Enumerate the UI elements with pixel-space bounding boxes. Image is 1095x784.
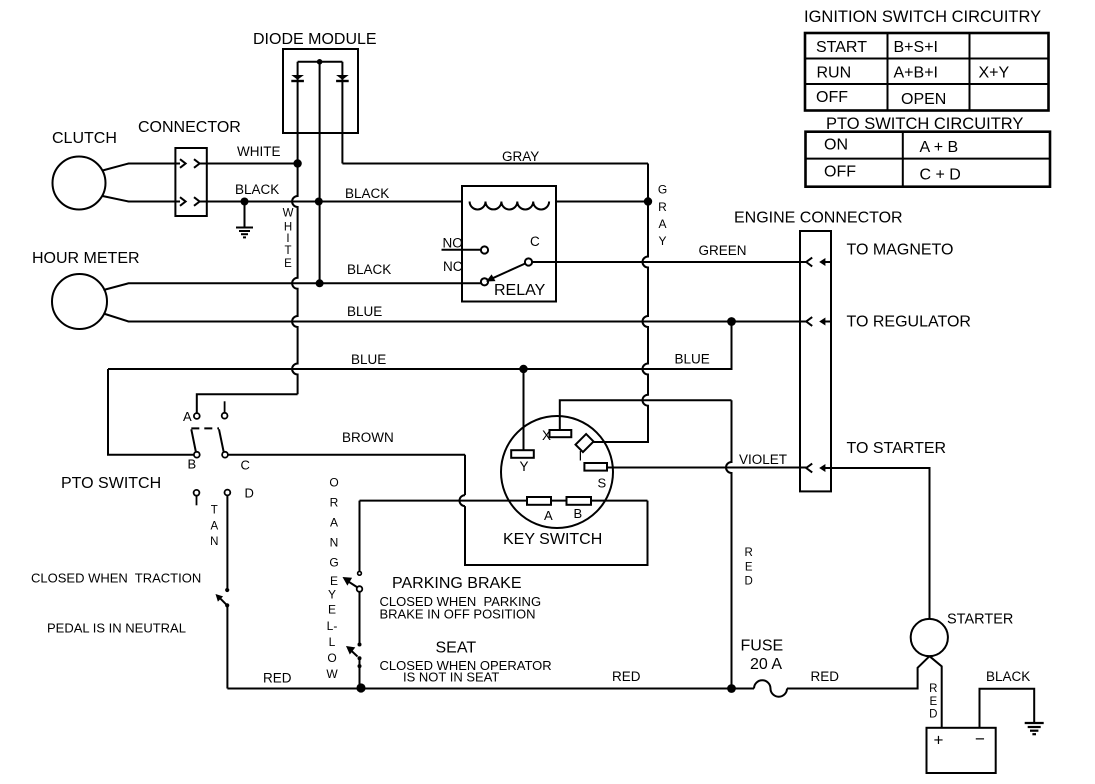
svg-text:CLUTCH: CLUTCH [52, 130, 117, 147]
wire starter from engine connector [825, 468, 930, 619]
svg-text:L: L [329, 635, 336, 649]
svg-text:D: D [929, 709, 937, 721]
svg-text:R: R [330, 496, 339, 510]
svg-text:FUSE: FUSE [741, 638, 784, 655]
svg-text:H: H [284, 222, 292, 234]
svg-text:RED: RED [612, 669, 641, 684]
pto contact bottom-left stub [194, 490, 200, 496]
svg-text:A: A [210, 521, 218, 533]
svg-text:Y: Y [328, 588, 336, 602]
diode module center tap wire down to black wire [319, 62, 321, 283]
svg-text:TO MAGNETO: TO MAGNETO [847, 242, 954, 259]
wire blue left leg to pto B [108, 369, 194, 455]
hour meter wire BLACK to relay NC [104, 283, 482, 290]
svg-text:W: W [283, 208, 294, 220]
svg-text:B+S+I: B+S+I [894, 39, 938, 56]
svg-text:A: A [658, 217, 666, 231]
svg-text:E: E [929, 696, 937, 708]
wire white down to pto A [197, 394, 298, 413]
junction blue / regulator wire [727, 317, 736, 326]
svg-text:R: R [929, 683, 937, 695]
connector pin chevrons row 2 [180, 197, 186, 206]
key switch wire to terminal X from fuse line [560, 400, 732, 430]
key switch wire terminal I to gray [592, 441, 649, 444]
wire WHITE vertical with hops [292, 164, 298, 395]
wire traction switch to red wire [226, 605, 228, 688]
junction center tap at black wire [315, 198, 323, 206]
diode D1 leg [297, 62, 299, 164]
diode D2 leg [341, 62, 343, 164]
svg-text:BLACK: BLACK [347, 262, 391, 277]
junction blue wire / Y wire [519, 365, 527, 373]
junction seat chain / red wire [356, 683, 365, 692]
svg-text:I: I [286, 233, 289, 245]
svg-text:Y: Y [520, 459, 529, 474]
svg-text:A: A [330, 516, 338, 530]
key switch terminal Y [511, 450, 534, 458]
pto contact top-right stub [224, 401, 226, 413]
svg-text:GREEN: GREEN [699, 243, 747, 258]
key switch S1 body circle [501, 416, 613, 528]
svg-text:A: A [183, 409, 192, 424]
wire A-B terminals row [360, 500, 648, 502]
wire RED starter to battery positive [930, 656, 942, 728]
svg-text:C: C [241, 458, 250, 473]
svg-text:X: X [542, 428, 551, 443]
svg-text:OFF: OFF [824, 164, 856, 181]
key switch wire terminal S VIOLET to engine connector [607, 467, 808, 469]
svg-text:E: E [284, 258, 292, 270]
svg-text:RED: RED [263, 671, 292, 686]
svg-text:BLACK: BLACK [986, 669, 1030, 684]
fuse F1 20A [754, 680, 787, 697]
svg-text:E: E [328, 603, 336, 617]
wire GRAY from diode module top right [342, 163, 648, 165]
engine connector pin chevrons starter row [806, 464, 812, 473]
svg-text:PTO SWITCH CIRCUITRY: PTO SWITCH CIRCUITRY [826, 115, 1023, 133]
wire GRAY vertical with hops [643, 164, 649, 442]
svg-text:NO: NO [443, 236, 463, 251]
svg-text:PEDAL IS IN NEUTRAL: PEDAL IS IN NEUTRAL [47, 621, 186, 636]
key switch terminal S [584, 463, 607, 471]
wire brown loop around key switch label box [464, 455, 466, 495]
svg-text:BLUE: BLUE [675, 352, 710, 367]
svg-text:IS NOT IN SEAT: IS NOT IN SEAT [403, 670, 499, 685]
svg-text:START: START [816, 39, 867, 56]
svg-text:W: W [326, 667, 338, 681]
svg-text:TO REGULATOR: TO REGULATOR [847, 314, 971, 331]
svg-text:OPEN: OPEN [901, 91, 946, 108]
svg-text:BRAKE IN OFF POSITION: BRAKE IN OFF POSITION [380, 607, 536, 622]
pto contact C [222, 452, 228, 458]
parking brake switch [358, 571, 362, 575]
pto switch gang dashed link [191, 427, 219, 429]
hour meter wire BLUE to regulator [104, 314, 808, 322]
svg-text:−: − [975, 730, 985, 749]
junction ground tap [241, 198, 249, 206]
svg-text:S: S [598, 476, 607, 491]
svg-text:I: I [579, 449, 583, 464]
svg-text:Y: Y [658, 234, 666, 248]
wire BLACK battery negative to ground [980, 689, 1035, 728]
svg-text:+: + [934, 731, 944, 750]
svg-text:E: E [330, 574, 338, 588]
svg-text:20 A: 20 A [750, 656, 782, 673]
starter M1 [911, 619, 948, 656]
diode module box [283, 49, 358, 133]
svg-text:RELAY: RELAY [494, 282, 546, 299]
svg-text:BLUE: BLUE [347, 304, 382, 319]
wire TAN pto D down to traction switch [226, 495, 228, 588]
junction fuse feed / X wire [727, 684, 736, 693]
engine connector pin chevrons magneto row [806, 258, 812, 267]
ground (connector black wire) [236, 202, 253, 238]
svg-text:BROWN: BROWN [342, 430, 394, 445]
svg-text:RED: RED [811, 669, 840, 684]
svg-text:CLOSED WHEN TRACTION: CLOSED WHEN TRACTION [31, 571, 201, 586]
svg-text:BLACK: BLACK [345, 186, 389, 201]
svg-text:BLACK: BLACK [235, 182, 279, 197]
svg-text:T: T [284, 245, 291, 257]
wire BROWN pto C to key switch box [228, 454, 465, 456]
wire X terminal down to fuse junction with hop over violet [726, 400, 732, 688]
svg-text:HOUR METER: HOUR METER [32, 250, 140, 267]
svg-text:RUN: RUN [817, 65, 852, 82]
relay NO stub wire [442, 249, 482, 251]
connector pin chevrons row 1 [180, 159, 186, 168]
svg-text:TO STARTER: TO STARTER [847, 440, 947, 457]
svg-text:X+Y: X+Y [979, 65, 1010, 82]
engine connector pin chevrons regulator row [806, 317, 812, 326]
key switch terminal A [527, 497, 551, 505]
svg-text:O: O [329, 476, 338, 490]
relay coil [470, 202, 550, 210]
svg-text:A+B+I: A+B+I [894, 65, 938, 82]
svg-text:VIOLET: VIOLET [739, 452, 787, 467]
clutch wires to connector [103, 164, 181, 171]
relay C wire GREEN to magneto [532, 261, 808, 263]
junction center tap at hour meter black wire [316, 279, 324, 287]
key switch terminal X [550, 430, 572, 437]
svg-text:NC: NC [443, 259, 463, 274]
hour meter [52, 274, 107, 329]
seat switch [358, 643, 362, 647]
wire BLACK connector to relay coil [200, 201, 462, 203]
svg-text:D: D [745, 576, 753, 588]
svg-text:ENGINE CONNECTOR: ENGINE CONNECTOR [734, 210, 903, 227]
diode D2 [336, 75, 349, 80]
key switch terminal I (rotated) [576, 434, 594, 452]
svg-text:OFF: OFF [816, 89, 848, 106]
svg-text:N: N [210, 536, 218, 548]
connector J1 [175, 148, 206, 216]
svg-text:PARKING BRAKE: PARKING BRAKE [392, 575, 522, 592]
svg-text:R: R [658, 200, 667, 214]
relay armature arm [491, 264, 526, 280]
wire RED fuse to starter [787, 656, 930, 688]
diode D1 [291, 75, 304, 80]
svg-text:IGNITION SWITCH CIRCUITRY: IGNITION SWITCH CIRCUITRY [804, 8, 1041, 26]
traction pedal switch [225, 588, 229, 592]
key switch wire to terminal Y from blue [523, 369, 525, 450]
svg-text:R: R [745, 547, 753, 559]
pto switch circuitry table [806, 132, 1051, 187]
svg-text:E: E [745, 562, 753, 574]
svg-text:CONNECTOR: CONNECTOR [138, 119, 241, 136]
clutch [53, 157, 106, 210]
node diode module center tap [317, 59, 323, 65]
pto contact B [194, 452, 200, 458]
svg-text:BLUE: BLUE [351, 352, 386, 367]
wire YELLOW parking brake to seat switch [359, 592, 361, 645]
pto switch arm right [219, 429, 224, 452]
ignition switch circuitry table [805, 33, 1049, 111]
svg-text:B: B [574, 506, 583, 521]
svg-text:D: D [245, 486, 254, 501]
pto contact A [194, 413, 200, 419]
ground (battery) [1025, 723, 1044, 734]
svg-text:KEY SWITCH: KEY SWITCH [503, 531, 602, 548]
svg-text:T: T [211, 505, 218, 517]
key switch terminal B [567, 497, 592, 505]
svg-text:A + B: A + B [920, 139, 959, 156]
svg-text:C: C [530, 234, 540, 249]
svg-text:SEAT: SEAT [436, 640, 477, 657]
pto switch arm left [191, 429, 196, 452]
junction gray wire / relay coil [644, 197, 652, 205]
engine connector J2 [800, 231, 831, 491]
svg-text:G: G [658, 183, 667, 197]
svg-text:STARTER: STARTER [947, 612, 1013, 628]
hop of box edge over A-B wire [460, 495, 466, 506]
wire WHITE connector to diode module [200, 163, 298, 165]
pto contact D [225, 490, 231, 496]
wire ORANGE from A-B row down to parking brake switch [359, 501, 361, 572]
svg-text:PTO SWITCH: PTO SWITCH [61, 475, 161, 492]
svg-text:WHITE: WHITE [237, 144, 281, 159]
svg-text:C + D: C + D [920, 167, 961, 184]
relay contact C [525, 258, 532, 265]
wire seat switch to red wire [359, 658, 361, 688]
svg-text:N: N [330, 536, 339, 550]
svg-text:DIODE MODULE: DIODE MODULE [253, 31, 377, 48]
svg-text:GRAY: GRAY [502, 149, 539, 164]
relay K1 box [462, 186, 556, 302]
junction white wire node [293, 159, 301, 167]
svg-text:ON: ON [824, 137, 848, 154]
svg-text:G: G [329, 556, 338, 570]
relay contact NO [481, 246, 488, 253]
wire BLUE middle run [108, 322, 732, 370]
wire RED bottom run [227, 688, 754, 690]
svg-text:A: A [544, 508, 553, 523]
svg-text:O: O [327, 651, 336, 665]
svg-text:B: B [188, 457, 197, 472]
relay contact NC [481, 278, 488, 285]
svg-text:L-: L- [327, 619, 338, 633]
diode module internal top wire [298, 61, 343, 63]
relay coil wire to gray node [556, 201, 648, 203]
battery BT1 [927, 728, 996, 773]
